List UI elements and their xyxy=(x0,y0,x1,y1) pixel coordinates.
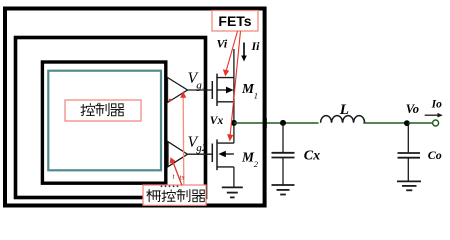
ground under M2 xyxy=(222,187,243,197)
junction dot at buffer A1 output xyxy=(169,99,172,102)
svg-text:2: 2 xyxy=(254,159,259,169)
node Vx xyxy=(231,120,237,126)
svg-text:Ii: Ii xyxy=(251,39,261,53)
controller inner box xyxy=(42,62,165,183)
svg-text:Cx: Cx xyxy=(304,149,320,164)
svg-text:Vi: Vi xyxy=(217,37,228,51)
wire inductor to output xyxy=(363,122,408,124)
outer converter box xyxy=(5,9,265,206)
gate-driver callout arrow to A2 xyxy=(173,162,182,186)
label box FETs xyxy=(212,11,258,32)
wire to output terminal xyxy=(408,122,432,124)
svg-text:1: 1 xyxy=(254,91,258,101)
outer box border over bus patch xyxy=(263,118,267,128)
wire M1 drain rail (Vi input down to Vx node) xyxy=(233,49,235,123)
inductor L xyxy=(321,116,365,123)
current arrow Io xyxy=(425,114,438,116)
capacitor Co xyxy=(398,123,421,181)
capacitor Cx xyxy=(272,123,295,185)
svg-text:ts: ts xyxy=(180,173,185,182)
FETs callout arrow to M2 xyxy=(230,31,240,135)
svg-text:Co: Co xyxy=(428,148,442,162)
ground under Co xyxy=(397,181,421,190)
wire Vx bus to inductor xyxy=(234,122,319,124)
label box 栅控制器 xyxy=(143,185,206,205)
wire gate2 xyxy=(188,153,213,155)
svg-text:Vx: Vx xyxy=(210,115,224,127)
wire gate1 xyxy=(188,89,213,91)
controller outer box xyxy=(16,38,206,198)
gate-driver callout arrow to A1 xyxy=(182,97,185,185)
svg-text:g2: g2 xyxy=(196,142,208,154)
node Vo xyxy=(404,120,410,126)
label box 控制器 xyxy=(65,100,141,121)
wire M2 drain up to Vx node xyxy=(233,123,235,143)
transistor M1 xyxy=(212,74,234,106)
transistor M2 xyxy=(212,139,234,170)
FETs callout arrow to M1 xyxy=(226,31,237,71)
current arrow Ii xyxy=(243,43,245,57)
controller core teal box xyxy=(48,71,161,171)
svg-text:Io: Io xyxy=(431,98,442,110)
gate driver buffer A1 xyxy=(168,78,188,103)
ground under Cx xyxy=(272,185,295,195)
node Cx junction xyxy=(280,120,286,126)
gate driver buffer A2 xyxy=(168,142,188,167)
svg-text:L: L xyxy=(339,102,349,118)
wire M2 source to ground xyxy=(233,167,235,188)
output terminal xyxy=(433,120,439,126)
ellipsis dots xyxy=(161,185,179,187)
svg-text:Vo: Vo xyxy=(406,102,419,116)
svg-text:FETs: FETs xyxy=(218,13,251,29)
